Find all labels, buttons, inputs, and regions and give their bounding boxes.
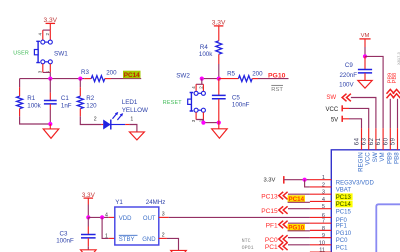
power 3.3V (SW1 supply) <box>46 22 56 24</box>
svg-text:PB8: PB8 <box>394 152 400 164</box>
svg-text:3: 3 <box>322 190 325 196</box>
svg-text:2: 2 <box>322 182 325 188</box>
svg-text:YELLOW: YELLOW <box>122 107 148 114</box>
svg-text:RST: RST <box>271 87 283 93</box>
svg-text:NTC: NTC <box>242 238 251 244</box>
wire R2 to LED1 <box>80 116 101 124</box>
svg-text:X817.3: X817.3 <box>396 52 400 65</box>
svg-text:PF1: PF1 <box>266 222 278 229</box>
svg-text:24MHz: 24MHz <box>146 199 166 206</box>
svg-text:60: 60 <box>383 137 389 145</box>
wire to VBAT pin2 <box>305 180 310 187</box>
svg-text:5V: 5V <box>331 117 338 123</box>
svg-text:Y1: Y1 <box>115 199 123 206</box>
svg-text:SW: SW <box>326 94 336 101</box>
wire R5 to PG10 <box>258 78 289 80</box>
pin 7 stub <box>310 222 331 224</box>
IC inner box <box>376 204 400 252</box>
pin 63 (VCC) stub <box>368 128 370 150</box>
power 3.3V (reset pull-up) <box>214 25 224 27</box>
svg-text:R5: R5 <box>227 70 235 77</box>
pin 61 (VM) stub <box>382 128 384 150</box>
svg-text:PC13: PC13 <box>261 193 278 200</box>
svg-text:VBAT: VBAT <box>336 188 352 194</box>
power 3.3V (VDD/VBAT) <box>283 176 285 184</box>
wire R1 bottom to C1 bottom <box>20 116 51 124</box>
wire 3.3V to SW1 pins <box>49 23 51 30</box>
switch SW2 <box>194 91 198 95</box>
junction C1/R1 ground node <box>48 122 52 126</box>
svg-text:61: 61 <box>376 137 382 145</box>
capacitor C1 <box>49 79 51 93</box>
wire to Y1 VDD <box>88 216 109 218</box>
svg-text:VM: VM <box>379 152 386 161</box>
svg-text:C5: C5 <box>232 94 240 101</box>
wire Y1 GND to ground <box>159 237 167 239</box>
svg-text:7: 7 <box>322 219 325 225</box>
switch SW1 <box>41 40 45 44</box>
svg-text:62: 62 <box>369 137 375 145</box>
IC U1 outline <box>331 150 400 252</box>
svg-text:PC14: PC14 <box>336 202 352 208</box>
pin 60 (PB9) stub <box>389 128 391 150</box>
svg-text:3: 3 <box>162 211 165 217</box>
svg-text:100nF: 100nF <box>56 237 74 244</box>
svg-text:100k: 100k <box>199 51 213 58</box>
svg-text:PC1: PC1 <box>336 245 348 251</box>
wire 3.3V to Y1 net <box>87 198 89 204</box>
resistor R5 <box>219 78 239 80</box>
svg-text:1: 1 <box>322 175 325 181</box>
svg-text:PG10: PG10 <box>268 72 286 79</box>
wire SW2 bottom pins <box>196 112 203 119</box>
svg-text:59: 59 <box>391 137 397 145</box>
svg-text:3.3V: 3.3V <box>212 20 226 27</box>
junction SW2 branch <box>200 77 204 81</box>
junction VM/C9 <box>363 54 367 58</box>
svg-text:LED1: LED1 <box>122 99 138 106</box>
svg-text:VCC: VCC <box>326 107 339 113</box>
svg-text:OPO1: OPO1 <box>242 245 254 251</box>
wire 3.3V to pin1 <box>284 179 310 181</box>
svg-text:C3: C3 <box>60 230 68 237</box>
ground (Y1) <box>171 250 187 252</box>
svg-text:63: 63 <box>362 137 368 145</box>
junction VDD/VBAT <box>303 178 307 182</box>
LED LED1 <box>103 120 111 130</box>
pin 59 (PB8) stub <box>397 128 399 150</box>
ground (C3) <box>81 250 97 252</box>
svg-text:PC15: PC15 <box>336 209 352 215</box>
svg-text:120: 120 <box>86 102 97 109</box>
wire STBY riser <box>102 217 109 238</box>
svg-text:PF1: PF1 <box>336 224 348 230</box>
junction R2/R3 <box>78 77 82 81</box>
pin 9 stub <box>310 237 331 239</box>
pin 11 stub <box>310 251 331 252</box>
resistor R3 <box>84 78 91 80</box>
off-sheet connector PC14 (highlighted) <box>288 195 305 202</box>
capacitor C5 <box>218 79 220 96</box>
svg-text:PC0: PC0 <box>336 238 348 244</box>
off-sheet connector PG10 (highlighted) <box>288 224 305 231</box>
wire SW1 bottom pins to net <box>43 64 51 73</box>
svg-text:4: 4 <box>105 212 108 218</box>
svg-text:9: 9 <box>322 233 325 239</box>
svg-text:R2: R2 <box>86 95 94 102</box>
svg-text:GND: GND <box>142 237 156 243</box>
svg-text:VCC: VCC <box>365 152 372 166</box>
svg-text:3.3V: 3.3V <box>263 178 275 184</box>
svg-text:5: 5 <box>322 204 325 210</box>
pin 10 stub <box>310 244 331 246</box>
capacitor C9 <box>364 56 366 69</box>
svg-text:PB9: PB9 <box>386 152 393 164</box>
wire VM to pin61 <box>365 56 383 128</box>
ground (LED1) <box>129 132 144 140</box>
svg-text:SW2: SW2 <box>176 72 190 79</box>
oscillator Y1 body <box>115 207 159 245</box>
svg-text:1: 1 <box>105 233 108 239</box>
pin 6 stub <box>310 216 331 218</box>
svg-text:VDD: VDD <box>119 216 132 222</box>
svg-text:SW1: SW1 <box>54 50 68 57</box>
svg-text:PC14: PC14 <box>124 72 140 79</box>
svg-text:10: 10 <box>319 240 325 246</box>
junction C3/3.3V <box>86 215 90 219</box>
svg-text:STBY: STBY <box>119 237 135 243</box>
wire R3 to PC14 <box>111 78 141 80</box>
junction Y1 VDD/STBY <box>100 215 104 219</box>
pin name PC14 (highlighted) <box>335 201 352 208</box>
power 3.3V (Y1 supply) <box>84 197 94 199</box>
svg-text:USER: USER <box>13 50 29 56</box>
resistor R4 <box>218 26 220 41</box>
svg-text:PG10: PG10 <box>336 231 352 237</box>
svg-text:R1: R1 <box>27 95 35 102</box>
wire Y1 OUT to PF0 <box>159 216 169 218</box>
svg-text:PC0: PC0 <box>265 237 278 244</box>
wire reset net <box>202 78 219 80</box>
junction C5 bottom <box>217 121 221 125</box>
svg-text:8: 8 <box>322 226 325 232</box>
pin name PC13 (highlighted) <box>335 193 352 200</box>
ground (SW2/C5) <box>218 123 220 129</box>
capacitor C3 <box>87 217 89 226</box>
svg-text:220nF: 220nF <box>339 72 357 79</box>
junction SW1/C1 <box>48 77 52 81</box>
resistor R2 <box>79 79 81 88</box>
svg-text:PC13: PC13 <box>336 195 352 201</box>
svg-text:200: 200 <box>252 70 263 77</box>
svg-text:SW: SW <box>372 152 379 162</box>
pin 1 stub <box>310 179 331 181</box>
ground (C9) <box>358 80 372 88</box>
svg-text:REGIN: REGIN <box>358 152 365 172</box>
pin 62 (SW) stub <box>375 128 377 150</box>
pin 8 stub <box>310 229 331 231</box>
svg-text:4: 4 <box>322 197 325 203</box>
svg-text:3.3V: 3.3V <box>82 192 96 199</box>
svg-text:PC1: PC1 <box>265 244 278 251</box>
svg-text:11: 11 <box>319 248 325 252</box>
svg-text:1: 1 <box>130 116 133 122</box>
svg-text:C9: C9 <box>345 62 353 69</box>
svg-text:REG3V3/VDD: REG3V3/VDD <box>336 180 375 186</box>
svg-text:1nF: 1nF <box>61 102 72 109</box>
pin 3 stub <box>310 193 331 195</box>
pin 5 stub <box>310 208 331 210</box>
svg-text:RESET: RESET <box>163 100 182 106</box>
svg-text:PC15: PC15 <box>261 208 278 215</box>
svg-text:100k: 100k <box>27 102 41 109</box>
svg-text:3.3V: 3.3V <box>44 17 58 24</box>
svg-text:C1: C1 <box>61 95 69 102</box>
svg-text:100nF: 100nF <box>232 101 250 108</box>
net label PC14 (highlighted) <box>123 71 141 79</box>
svg-text:2: 2 <box>162 233 165 239</box>
wire LED1 cathode to ground <box>125 124 129 126</box>
junction R4/R5/C5 <box>217 77 221 81</box>
ground (R1/C1) <box>49 124 51 129</box>
resistor R1 <box>19 79 21 88</box>
pin 2 stub <box>310 186 331 188</box>
svg-text:200: 200 <box>106 70 117 77</box>
junction SW2 bottom <box>201 121 205 125</box>
pin 64 (REGIN) stub <box>361 128 363 150</box>
svg-text:OUT: OUT <box>143 216 156 222</box>
svg-text:PB8: PB8 <box>392 73 398 84</box>
svg-text:2: 2 <box>94 116 97 122</box>
wire main left net <box>20 78 85 80</box>
pin 4 stub <box>310 200 331 202</box>
wire SW2 to ground node <box>203 122 218 124</box>
svg-text:100V: 100V <box>339 82 354 89</box>
wire SW2 top pins <box>201 79 203 85</box>
svg-text:64: 64 <box>355 137 361 145</box>
svg-text:R3: R3 <box>81 69 89 76</box>
